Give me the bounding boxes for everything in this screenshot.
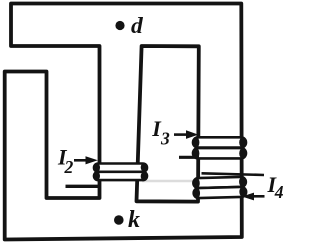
I2 current arrowhead — [86, 156, 98, 164]
middle window of core — [137, 46, 199, 202]
coil I2 turn 1 end blobs — [94, 163, 100, 172]
coil I4 turn 1 end blobs — [193, 178, 200, 189]
I4 coil top lead — [202, 173, 265, 175]
faint show-through line in middle window bottom — [142, 180, 198, 183]
coil I2 turn 2 — [94, 172, 147, 180]
I3 coil bottom lead — [179, 156, 199, 159]
svg-text:d: d — [131, 13, 144, 39]
coil I3 turn 1 end blobs — [193, 137, 200, 148]
coil I4 turn 2 — [194, 187, 247, 198]
coil I3 turn 1 — [193, 137, 246, 147]
node k bullet — [114, 215, 124, 225]
core outer outline (top yoke, right limb, bottom yoke, left limb with gap, center limb) — [5, 4, 242, 240]
I4 current arrowhead — [242, 193, 254, 201]
coil I2 turn 1 — [94, 164, 147, 172]
I4 current lead wire — [253, 195, 265, 198]
I2 current lead wire — [74, 159, 87, 162]
I3 current arrowhead — [186, 130, 198, 139]
coil I3 turn 2 end blobs — [193, 148, 200, 159]
node d bullet — [115, 21, 124, 30]
svg-text:3: 3 — [160, 129, 170, 149]
coil I4 turn 2 end blobs — [193, 188, 200, 199]
coil I4 turn 1 — [193, 176, 247, 198]
I3 current lead wire — [174, 133, 187, 136]
coil I3 turn 2 — [193, 148, 246, 158]
svg-text:2: 2 — [64, 157, 74, 177]
coil I2 turn 2 end blobs — [94, 171, 100, 180]
svg-text:4: 4 — [274, 182, 284, 202]
svg-text:k: k — [128, 207, 140, 233]
I2 coil bottom lead — [66, 185, 100, 188]
